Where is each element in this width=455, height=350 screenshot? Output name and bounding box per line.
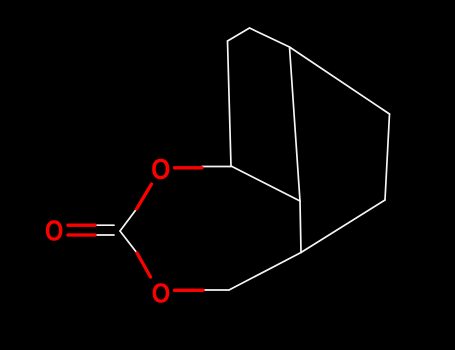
bond E-T [228, 28, 250, 41]
svg-text:O: O [152, 277, 171, 309]
bond C-D [229, 253, 301, 291]
bond B-C [300, 201, 301, 253]
bond O3-D red half [175, 289, 204, 292]
bond A-E [228, 41, 232, 166]
carbonyl double bond white half lower [95, 234, 114, 236]
bond C2-O3 red half [137, 253, 151, 277]
bond C2-O3 white half [120, 231, 137, 253]
carbonyl double bond red lower line [68, 233, 95, 236]
bond F-G [290, 47, 390, 114]
bond F-B [290, 47, 301, 201]
bond A-B [231, 166, 300, 201]
bond O3-D white half [203, 289, 229, 291]
bond H-C [301, 200, 385, 253]
bond C2-O1 red half [137, 184, 152, 209]
bond C2-O1 white half [120, 209, 137, 231]
bond O1-A red half [175, 166, 203, 169]
bond G-H [385, 114, 390, 200]
carbonyl double bond red upper line [68, 224, 95, 227]
bond O1-A white half [202, 166, 231, 168]
bond T-F [250, 28, 290, 47]
carbonyl double bond white half upper [95, 224, 114, 226]
svg-text:O: O [151, 153, 170, 185]
svg-text:O: O [45, 214, 64, 246]
